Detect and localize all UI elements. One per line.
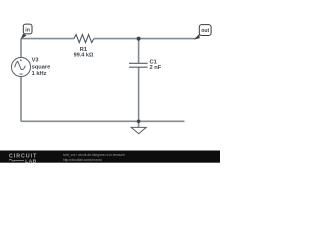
svg-text:smit_xxx / circuit-de-integrar: smit_xxx / circuit-de-integrare-rc-in-te… [63, 153, 125, 157]
svg-text:square: square [32, 65, 51, 71]
svg-text:99.4 kΩ: 99.4 kΩ [74, 53, 94, 59]
svg-text:LAB: LAB [25, 158, 37, 164]
svg-text:CIRCUIT: CIRCUIT [9, 154, 37, 160]
svg-text:V3: V3 [32, 58, 39, 64]
svg-text:in: in [25, 28, 30, 34]
svg-text:http:∕∕circuitlab.com∕c∕xxxxxx: http:∕∕circuitlab.com∕c∕xxxxxx [63, 158, 102, 162]
svg-text:1 kHz: 1 kHz [32, 71, 47, 77]
svg-text:out: out [201, 28, 209, 34]
svg-text:2 nF: 2 nF [150, 65, 162, 71]
svg-text:C1: C1 [150, 60, 157, 66]
